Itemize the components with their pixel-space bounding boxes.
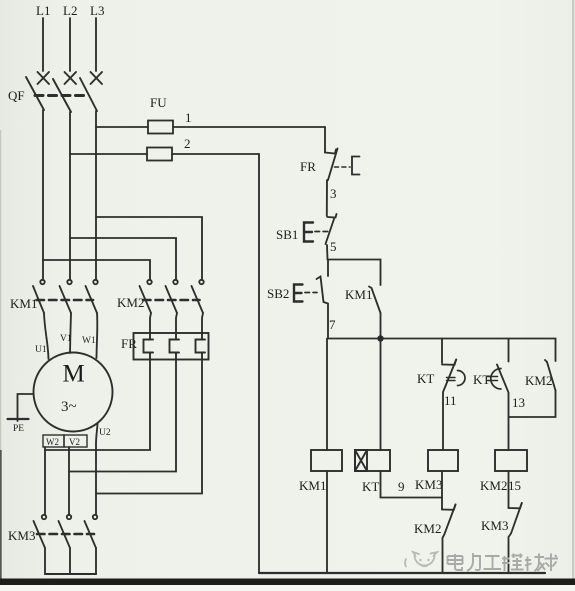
svg-text:V1: V1 (60, 334, 72, 344)
wire crossover B to KM2 pole2 (70, 238, 176, 280)
svg-text:KM1: KM1 (345, 287, 372, 302)
contactor KM3 pole 3 (85, 515, 98, 574)
svg-text:M: M (63, 361, 85, 388)
contactor KM2 linkage (143, 299, 200, 302)
svg-text:L2: L2 (63, 3, 77, 18)
button SB1 linkage (315, 231, 329, 233)
svg-text:L1: L1 (36, 3, 50, 18)
svg-text:KM2: KM2 (525, 373, 552, 388)
contact KM1 aux NO (369, 287, 381, 339)
svg-text:1: 1 (185, 110, 192, 125)
wire crossover A to KM2 pole1 (43, 260, 150, 280)
contact FR reset head (352, 157, 360, 175)
contact KT delay arc 2 (488, 377, 498, 381)
svg-text:KM1: KM1 (299, 478, 326, 493)
wire KM1 pole3 to motor W1 (96, 313, 99, 358)
svg-text:KM1: KM1 (10, 296, 37, 311)
svg-text:FU: FU (150, 95, 167, 110)
svg-text:3~: 3~ (61, 399, 77, 415)
button SB2 actuator (294, 285, 303, 302)
wire control bottom rail (259, 572, 545, 574)
wire KM1 coil branch (326, 339, 328, 451)
thermal relay FR element 1 (144, 333, 154, 360)
thermal relay FR element 2 (170, 333, 180, 360)
svg-text:W2: W2 (46, 437, 59, 447)
contactor KM3 pole 2 (59, 515, 72, 574)
ground PE (8, 394, 34, 434)
svg-text:KM2: KM2 (414, 521, 441, 536)
svg-text:U2: U2 (99, 428, 111, 438)
contact KM2 interlock NC (442, 471, 456, 573)
contactor KM2 main pole 2 (166, 280, 178, 333)
watermark text dianli gongcheng jishu (448, 553, 559, 571)
wire KM1 coil to rail (326, 471, 328, 573)
contact KM3 interlock NC (509, 471, 522, 573)
node L1 (36, 3, 50, 18)
wire KT coil bottom (381, 471, 443, 498)
wire motor V2 drop (68, 447, 70, 515)
contact KT NO delayed (497, 339, 509, 451)
thermal relay FR heater box (134, 333, 209, 360)
svg-text:KT: KT (362, 479, 379, 494)
wire motor W2 drop (44, 447, 46, 515)
coil KM1 (311, 450, 342, 471)
terminal W2 box (43, 435, 64, 447)
wire FR3 to U2 (96, 360, 202, 494)
svg-text:KM2: KM2 (480, 478, 507, 493)
contactor KM3 linkage (37, 533, 94, 536)
contact KT NC delayed (442, 339, 456, 451)
svg-text:QF: QF (8, 88, 25, 103)
wire L2 drop (69, 18, 71, 71)
motor M circle (34, 353, 113, 432)
svg-text:3: 3 (330, 186, 337, 201)
contact KM2 aux NO (509, 360, 556, 417)
wire L3 drop (95, 18, 97, 71)
fuse FU1 (96, 121, 325, 134)
svg-text:U1: U1 (35, 345, 47, 355)
breaker QF linkage (35, 94, 87, 97)
wire KM1 pole2 to motor V1 (70, 313, 71, 353)
contactor KM1 linkage (37, 299, 94, 302)
wire control rail (328, 339, 556, 362)
svg-text:KM3: KM3 (415, 477, 442, 492)
breaker QF pole 2 (53, 72, 76, 112)
coil KM2 (495, 450, 527, 471)
svg-text:2: 2 (184, 136, 191, 151)
svg-text:5: 5 (330, 239, 337, 254)
svg-text:SB2: SB2 (267, 286, 289, 301)
wire FR2 to V2 (69, 360, 176, 472)
terminal V2 box (64, 435, 87, 447)
thermal relay FR element 3 (196, 333, 206, 360)
contactor KM1 main pole 2 (60, 280, 72, 313)
node L2 (63, 3, 77, 18)
contact FR NC (325, 149, 338, 217)
svg-text:KM3: KM3 (8, 528, 35, 543)
svg-text:PE: PE (13, 424, 24, 434)
watermark logo (405, 552, 437, 567)
wire phase C bus (95, 111, 97, 280)
junction dot (377, 335, 383, 341)
wire KM3 star bar (45, 573, 96, 575)
wire KT coil branch (380, 339, 382, 451)
wire phase A bus (42, 110, 44, 280)
wire FR1 to W2 (45, 360, 150, 451)
wire L1 drop (42, 18, 44, 71)
coil KT (355, 450, 390, 471)
button SB2 linkage (305, 292, 317, 294)
svg-text:13: 13 (512, 395, 525, 410)
fuse FU2 (70, 148, 259, 161)
wire branch to KM1 aux (328, 260, 381, 286)
svg-text:9: 9 (398, 479, 405, 494)
wire control line 1 drop (324, 127, 326, 153)
breaker QF pole 3 (80, 72, 102, 111)
svg-text:7: 7 (329, 317, 336, 332)
contact SB1 NC (326, 214, 337, 260)
node L3 (90, 3, 104, 18)
svg-text:FR: FR (121, 336, 137, 351)
contactor KM1 main pole 3 (86, 280, 98, 313)
wire crossover C to KM2 pole3 (96, 217, 202, 280)
svg-text:SB1: SB1 (276, 227, 298, 242)
svg-text:KM3: KM3 (481, 518, 508, 533)
contactor KM3 pole 1 (34, 515, 47, 574)
svg-text:11: 11 (444, 393, 457, 408)
svg-text:KM2: KM2 (117, 295, 144, 310)
breaker QF pole 1 (26, 72, 49, 110)
button SB1 actuator (304, 223, 313, 242)
wire KM1 pole1 to motor U1 (44, 313, 49, 359)
wire control line 2 drop (258, 154, 260, 573)
contact KT delay arc 1 (447, 378, 456, 381)
svg-text:KT: KT (417, 371, 434, 386)
contactor KM1 main pole 1 (33, 280, 45, 313)
contactor KM2 main pole 3 (192, 280, 204, 333)
wire phase B bus (69, 112, 71, 280)
svg-text:15: 15 (508, 478, 521, 493)
contactor KM2 main pole 1 (140, 280, 152, 333)
svg-text:L3: L3 (90, 3, 104, 18)
svg-text:KT: KT (473, 372, 490, 387)
contact SB2 NO (317, 260, 329, 339)
svg-text:V2: V2 (69, 437, 80, 447)
svg-text:FR: FR (300, 159, 316, 174)
coil KM3 (428, 450, 458, 471)
contact FR reset linkage (335, 166, 351, 168)
svg-text:W1: W1 (82, 336, 96, 346)
bottom border bar (0, 579, 575, 586)
wire motor U2 drop (96, 424, 98, 515)
